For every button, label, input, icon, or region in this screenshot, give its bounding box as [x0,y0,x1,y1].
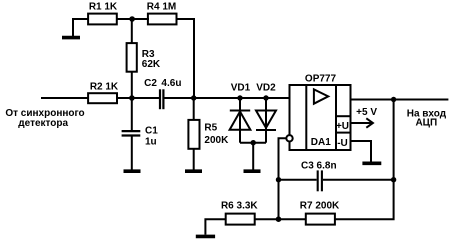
svg-text:+U: +U [336,121,349,132]
resistor R3 [127,43,137,72]
svg-text:R6 3.3K: R6 3.3K [221,200,258,211]
svg-text:VD1: VD1 [231,83,251,94]
wire R6 left to ground [205,219,226,234]
wire VD1/VD2 bottoms [240,142,266,144]
junction node G (output/feedback) [391,97,396,102]
wire node C down to R5 [193,98,195,120]
resistor R2 [88,93,117,103]
resistor R6 [226,214,255,225]
inverting input circle [286,135,292,141]
svg-text:C1: C1 [145,126,158,137]
resistor R5 [188,120,199,149]
wire C2 to op-amp input [164,97,290,99]
+5 V supply arrow [351,118,373,127]
ground (-U) [362,162,381,166]
label output "На вход АЦП" [407,108,447,128]
wire C1 to ground [131,136,133,170]
wire node H to C3 [279,179,317,181]
wire C3 right to node I [323,179,394,181]
ground (C1) [124,169,141,173]
svg-text:R2 1K: R2 1K [90,82,119,93]
svg-text:DA1: DA1 [311,137,331,148]
svg-text:1u: 1u [145,137,157,148]
svg-text:-U: -U [337,138,348,149]
wire input line [41,97,89,99]
junction node J (R6/R7/bus) [276,216,282,222]
junction node B (R2/R3/C1/C2) [129,95,135,101]
svg-text:R4 1M: R4 1M [147,2,176,13]
ground (top left) [62,36,80,40]
wire -U pin to ground [351,141,372,162]
wire R4 right down to main line [176,19,194,98]
ground (R5) [185,169,202,173]
wire R6 to node J [255,218,279,220]
junction node E (VD2 top) [263,95,268,100]
svg-text:R3: R3 [142,49,155,60]
junction node C (main/R4/R5) [191,95,196,100]
wire R2 to C2 [116,97,159,99]
svg-text:OP777: OP777 [305,74,337,85]
wire node B down to C1 [131,98,133,131]
svg-text:+5 V: +5 V [356,107,377,118]
svg-text:R5: R5 [204,123,217,134]
capacitor C2 [159,89,161,109]
ground (R6) [196,235,215,239]
junction node I (C3 right) [391,177,396,182]
junction node D (VD1 top) [237,95,242,100]
wire node F to ground [252,143,254,170]
op-amp DA1 (OP777) [290,85,351,150]
capacitor C3 [317,170,319,191]
svg-text:R7 200K: R7 200K [300,200,340,211]
wire R1 left lead to ground [73,19,89,36]
resistor R4 [148,14,177,25]
wire R3 bottom to main line [131,72,133,98]
svg-text:200K: 200K [204,135,229,146]
wire R7 to node J [279,218,307,220]
wire R1 to R4 [116,18,149,20]
ground (diodes) [244,169,261,173]
wire feedback vertical to R7 [335,100,394,220]
diode VD2 [256,98,276,143]
capacitor C1 [122,130,141,132]
svg-text:детектора: детектора [18,118,68,129]
wire node A to R3 [131,19,133,43]
junction node H (C3 left) [276,177,281,182]
svg-text:VD2: VD2 [256,83,276,94]
label input "От синхронного детектора" [5,108,84,129]
resistor R7 [306,214,335,225]
svg-text:C2 4.6u: C2 4.6u [144,78,181,89]
wire R5 to ground [193,149,195,170]
resistor R1 [88,14,117,25]
diode VD1 [230,98,251,143]
svg-text:C3 6.8n: C3 6.8n [301,161,337,172]
svg-text:62K: 62K [142,59,161,70]
junction node F (diode common) [251,140,256,145]
wire inverting input to feedback bus [279,138,287,219]
junction node A (R1/R4/R3) [129,16,135,22]
svg-text:R1 1K: R1 1K [89,2,118,13]
wire output [351,99,449,101]
svg-text:АЦП: АЦП [415,118,437,129]
